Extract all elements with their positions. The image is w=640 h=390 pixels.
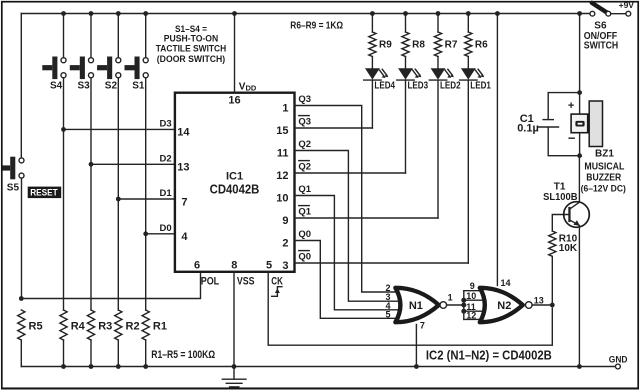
svg-text:Q2: Q2	[298, 161, 311, 172]
gate N1 (4-input NOR)	[395, 288, 446, 322]
svg-text:RESET: RESET	[30, 188, 58, 198]
junction on top rail x=468.3	[466, 11, 471, 16]
svg-text:N2: N2	[497, 300, 511, 312]
svg-text:IC1: IC1	[226, 171, 243, 183]
wire: pin 2 Q0	[295, 241, 400, 319]
svg-text:VDD: VDD	[239, 82, 257, 93]
wire: D0 to IC1 pin 4	[146, 233, 175, 235]
svg-text:S4: S4	[50, 81, 63, 92]
svg-text:0.1µ: 0.1µ	[517, 123, 539, 135]
svg-text:R1: R1	[153, 321, 167, 333]
svg-text:5: 5	[385, 310, 390, 320]
svg-text:D3: D3	[160, 119, 172, 130]
junction on top rail x=405.5	[403, 11, 408, 16]
junction on top rail x=91.0	[89, 11, 94, 16]
wire: pin 9 Q1bar	[295, 217, 439, 219]
svg-text:2: 2	[282, 237, 288, 249]
svg-text:R7: R7	[445, 39, 458, 50]
svg-text:10: 10	[466, 291, 476, 301]
switch S1	[125, 14, 149, 92]
wire: left rail down to S5	[20, 14, 22, 158]
wire: N2 out up to R10	[551, 256, 553, 305]
svg-text:4: 4	[181, 231, 188, 243]
svg-text:SL100B: SL100B	[543, 192, 577, 203]
wire: CK pin 5 feedback	[268, 272, 552, 345]
svg-text:3: 3	[282, 260, 288, 272]
junction on top rail x=497.4	[495, 11, 500, 16]
svg-text:BUZZER: BUZZER	[586, 172, 622, 183]
svg-text:1: 1	[448, 293, 453, 303]
switch S5	[2, 157, 24, 194]
svg-text:GND: GND	[609, 355, 628, 365]
svg-text:N1: N1	[409, 300, 423, 312]
svg-text:R3: R3	[98, 321, 112, 333]
LED LED3	[397, 57, 429, 92]
wire: LED3 cathode down	[405, 80, 407, 173]
junction on top rail x=438.0	[436, 11, 441, 16]
wire: LED1 cathode down	[467, 80, 469, 263]
transistor T1 SL100B	[543, 181, 589, 227]
svg-text:T1: T1	[554, 181, 566, 192]
svg-text:1: 1	[282, 102, 288, 114]
svg-text:LED4: LED4	[374, 81, 395, 92]
label RESET	[28, 187, 62, 199]
svg-text:LED1: LED1	[470, 81, 491, 92]
svg-text:R2: R2	[126, 321, 140, 333]
wire: N1 pin 7 to ground	[415, 325, 417, 367]
svg-text:R1–R5 = 100KΩ: R1–R5 = 100KΩ	[151, 349, 215, 361]
LED LED2	[429, 57, 461, 92]
wire: POL pin 6	[21, 272, 200, 299]
wire: pin 1 Q3	[295, 106, 400, 293]
svg-text:SWITCH: SWITCH	[584, 40, 618, 51]
svg-text:D0: D0	[160, 223, 172, 234]
svg-text:S6: S6	[594, 21, 607, 32]
ground symbol	[222, 367, 246, 387]
wire: N2 input pin 12 stub	[464, 318, 484, 320]
svg-text:BZ1: BZ1	[595, 149, 614, 160]
switch S6	[584, 3, 631, 52]
svg-text:Q3: Q3	[298, 94, 311, 105]
svg-text:POL: POL	[201, 275, 220, 287]
junction bottom rail x=145.7	[143, 364, 148, 369]
wire: column x=91.0 switch to resistor R3	[90, 78, 92, 310]
wire: VSS pin 8	[233, 272, 235, 367]
wire: N2 input pin 10 stub	[464, 299, 484, 301]
junction on top rail x=118.3	[116, 11, 121, 16]
svg-text:Q2: Q2	[298, 139, 311, 150]
wire: N2 pin 14 to +9V rail	[496, 14, 498, 286]
svg-text:S5: S5	[7, 183, 20, 194]
svg-text:9: 9	[282, 215, 288, 227]
switch S4	[42, 14, 66, 92]
wire: pin 15 Q3bar	[295, 127, 373, 129]
svg-text:S2: S2	[105, 81, 118, 92]
wire: pin 10 Q1	[295, 196, 400, 310]
svg-text:Q3: Q3	[298, 116, 311, 127]
wire: N2 input pin 11 stub	[464, 310, 484, 312]
svg-text:12: 12	[466, 310, 476, 320]
svg-text:S1: S1	[132, 81, 145, 92]
svg-text:R6–R9 = 1KΩ: R6–R9 = 1KΩ	[290, 20, 343, 31]
svg-text:D2: D2	[160, 153, 172, 164]
op IC1 CD4042B body	[175, 93, 295, 272]
wire: pin 3 Q0bar	[295, 262, 469, 264]
svg-text:D1: D1	[160, 188, 173, 199]
svg-text:13: 13	[177, 162, 189, 174]
wire: D2 to IC1 pin 13	[91, 163, 175, 165]
svg-text:16: 16	[228, 95, 240, 107]
wire: pin 11 Q2	[295, 151, 400, 302]
wire: column x=63.5 switch to resistor R4	[63, 78, 65, 310]
junction at D row x=145.7	[143, 231, 148, 236]
clock edge symbol	[272, 287, 282, 297]
junction bottom rail x=63.5	[61, 364, 66, 369]
junction on top rail x=63.5	[61, 11, 66, 16]
resistor R2	[115, 310, 122, 340]
wire: LED2 cathode down	[437, 80, 439, 218]
border bottom emphasis	[1, 388, 639, 390]
svg-text:Q0: Q0	[298, 229, 311, 240]
wire: D1 to IC1 pin 7	[118, 198, 175, 200]
switch S2	[97, 14, 121, 92]
svg-text:11: 11	[277, 147, 289, 159]
resistor R1	[142, 310, 149, 340]
svg-text:R8: R8	[412, 39, 425, 50]
buzzer BZ1	[568, 100, 626, 194]
junction bottom rail x=91.0	[89, 364, 94, 369]
svg-text:R5: R5	[29, 321, 43, 333]
junction on top rail x=145.7	[143, 11, 148, 16]
node GND terminal	[616, 364, 621, 369]
wire: +9V top supply rail	[21, 13, 590, 15]
wire: pin 12 Q2bar	[295, 172, 406, 174]
wire: column x=145.7 switch to resistor R1	[145, 78, 147, 310]
svg-text:+9V: +9V	[619, 0, 635, 10]
svg-text:14: 14	[501, 278, 511, 288]
svg-text:S3: S3	[78, 81, 91, 92]
svg-text:10K: 10K	[559, 243, 578, 254]
svg-text:(6–12V DC): (6–12V DC)	[581, 183, 626, 194]
svg-text:VSS: VSS	[237, 275, 255, 287]
svg-text:CD4042B: CD4042B	[210, 183, 260, 197]
svg-text:13: 13	[534, 296, 544, 306]
svg-text:IC2 (N1–N2) = CD4002B: IC2 (N1–N2) = CD4002B	[426, 349, 552, 363]
svg-text:7: 7	[181, 196, 187, 208]
svg-text:14: 14	[177, 127, 190, 139]
capacitor C1	[517, 93, 579, 156]
label S1-S4 note	[156, 24, 227, 65]
svg-text:15: 15	[276, 125, 288, 137]
wire: LED4 cathode down	[371, 80, 373, 128]
resistor R4	[60, 310, 67, 340]
wire: T1 emitter to ground rail	[578, 226, 580, 367]
wire: N2 output pin 13	[532, 304, 552, 306]
wire: T1 collector up to buzzer	[578, 156, 580, 203]
svg-text:12: 12	[276, 170, 288, 182]
LED LED4	[364, 57, 396, 92]
svg-text:6: 6	[194, 260, 200, 272]
svg-text:Q0: Q0	[298, 251, 311, 262]
resistor R9	[371, 14, 373, 33]
svg-text:5: 5	[266, 259, 272, 271]
resistor R8	[405, 14, 407, 33]
junction at D row x=91.0	[89, 162, 94, 167]
svg-text:8: 8	[231, 260, 237, 272]
LED LED1	[460, 57, 492, 92]
wire: buzzer vertical	[579, 93, 581, 156]
resistor R6	[467, 14, 469, 33]
switch S3	[70, 14, 94, 92]
svg-text:LED3: LED3	[408, 81, 429, 92]
junction on top rail x=372.4	[370, 11, 375, 16]
svg-text:Q1: Q1	[298, 206, 311, 217]
node: N2 input bus bar	[463, 291, 465, 320]
resistor R10	[549, 231, 556, 256]
wire: N1 output pin 1	[447, 304, 464, 306]
wire: N2 input pin 9 stub	[464, 290, 484, 292]
svg-text:Q1: Q1	[298, 184, 311, 195]
wire: rail down to buzzer node	[579, 14, 581, 93]
wire: VDD pin 16	[234, 14, 236, 93]
resistor R7	[437, 14, 439, 33]
wire: ground bottom rail	[21, 366, 615, 368]
svg-text:(DOOR SWITCH): (DOOR SWITCH)	[157, 54, 225, 65]
resistor R3	[87, 310, 94, 340]
wire: R10 to T1 base	[552, 215, 568, 232]
svg-text:TACTILE SWITCH: TACTILE SWITCH	[156, 44, 227, 55]
svg-text:LED2: LED2	[440, 81, 461, 92]
junction at D row x=63.5	[61, 127, 66, 132]
wire: column x=118.3 switch to resistor R2	[117, 78, 119, 310]
gate N2 (4-input NOR)	[480, 288, 532, 322]
svg-text:10: 10	[276, 192, 288, 204]
svg-text:MUSICAL: MUSICAL	[584, 162, 624, 173]
junction on top rail x=579.6	[577, 11, 582, 16]
junction at D row x=118.3	[116, 197, 121, 202]
junction N2 output node	[550, 303, 555, 308]
resistor R5	[18, 310, 25, 340]
svg-text:9: 9	[470, 281, 475, 291]
svg-text:CK: CK	[271, 275, 283, 287]
junction on top rail x=234.5	[232, 11, 237, 16]
svg-text:R9: R9	[379, 39, 392, 50]
wire: S5 to POL node	[21, 178, 23, 298]
svg-text:+: +	[568, 100, 574, 112]
junction bottom rail x=118.3	[116, 364, 121, 369]
svg-text:7: 7	[420, 321, 425, 331]
svg-text:R6: R6	[475, 39, 488, 50]
wire: D3 to IC1 pin 14	[64, 128, 175, 130]
svg-text:R4: R4	[71, 321, 86, 333]
junction POL left	[19, 296, 24, 301]
